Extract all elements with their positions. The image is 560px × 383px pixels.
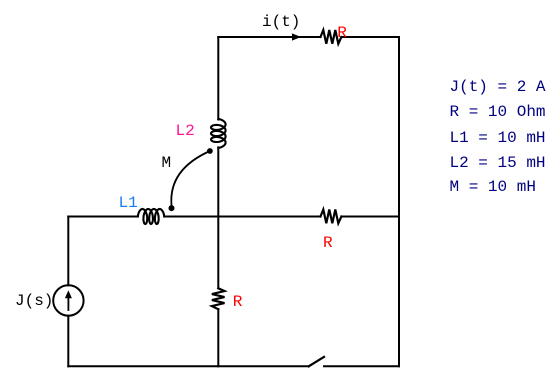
inductor L2 coil xyxy=(211,119,226,148)
current arrow i(t) xyxy=(292,33,301,40)
dot L1 coupling terminal xyxy=(169,205,175,211)
current source J(s) circle xyxy=(53,285,83,315)
wire top rail right segment xyxy=(341,36,399,38)
current source arrow xyxy=(67,297,69,310)
dot L2 coupling terminal xyxy=(207,148,213,154)
value R = 10 Ohm xyxy=(450,104,546,120)
label L1 xyxy=(119,195,138,211)
wire mid vertical from L2 to R3 xyxy=(217,147,219,288)
value M = 10 mH xyxy=(450,179,536,195)
wire upper left vertical above L2 xyxy=(217,37,219,120)
switch S1 blade xyxy=(309,357,324,366)
label L2 xyxy=(176,123,195,139)
value L1 = 10 mH xyxy=(450,130,546,146)
wire left vertical lower xyxy=(67,316,69,367)
label R top xyxy=(337,25,347,41)
label i(t) xyxy=(262,14,300,30)
resistor R3 vertical xyxy=(212,288,225,309)
wire middle rail center xyxy=(164,216,320,218)
wire top rail left segment xyxy=(218,36,320,38)
label R middle xyxy=(323,235,333,251)
wire below R3 xyxy=(217,309,219,366)
inductor L1 coil xyxy=(138,209,165,224)
resistor R1 top xyxy=(321,30,342,44)
wire right vertical xyxy=(398,37,400,366)
resistor R2 middle xyxy=(321,210,342,224)
wire left vertical upper xyxy=(67,217,69,286)
value L2 = 15 mH xyxy=(450,155,546,171)
value J(t) = 2 A xyxy=(450,79,546,95)
mutual inductance arc M xyxy=(171,151,210,205)
label M xyxy=(162,155,172,171)
label R vertical xyxy=(233,294,243,310)
label J(s) xyxy=(15,293,53,309)
wire middle rail left xyxy=(68,216,138,218)
wire bottom rail left xyxy=(68,365,308,367)
wire middle rail right xyxy=(341,216,399,218)
wire bottom rail right xyxy=(324,365,399,367)
